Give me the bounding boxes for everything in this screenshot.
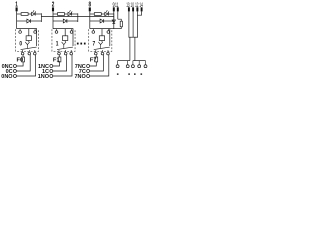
wire 10 down bbox=[132, 11, 134, 37]
terminal 14 pin mark bbox=[141, 7, 143, 11]
terminal 11 pin mark bbox=[117, 7, 119, 11]
contact point b bbox=[34, 31, 37, 34]
wire 14 jog bbox=[137, 11, 141, 15]
contact point a bbox=[92, 31, 95, 34]
wire 7NO bbox=[90, 55, 109, 76]
plug mark bbox=[128, 73, 130, 75]
relay box K7 bbox=[89, 29, 112, 51]
svg-text:7: 7 bbox=[93, 42, 96, 48]
socket bbox=[138, 65, 141, 68]
resistor R1 bbox=[58, 13, 65, 16]
terminal 1NO bbox=[50, 75, 53, 78]
socket bbox=[131, 65, 134, 68]
svg-text:1NO: 1NO bbox=[38, 74, 50, 80]
socket bbox=[126, 65, 129, 68]
contact stub a bbox=[56, 29, 58, 31]
bottom point 2 bbox=[34, 52, 37, 55]
wire LED to node bbox=[72, 13, 78, 15]
terminal 9 pin mark bbox=[113, 7, 115, 11]
fuse F1 bbox=[58, 57, 61, 62]
socket stub bbox=[132, 61, 134, 65]
diode D7b bbox=[100, 19, 104, 23]
wire 1NO bbox=[53, 55, 72, 76]
wire diode to node bbox=[31, 20, 42, 22]
bottom point 0 bbox=[95, 52, 98, 55]
contact stub b bbox=[71, 29, 73, 31]
svg-text:0: 0 bbox=[19, 42, 22, 48]
actuator stem bbox=[26, 45, 28, 49]
bottom stub 2 bbox=[34, 50, 36, 52]
wire input 1 vertical bbox=[16, 11, 18, 28]
wire bus coil return bbox=[110, 28, 122, 30]
wire 0NC bbox=[16, 62, 23, 66]
wire socket bus right bbox=[133, 60, 146, 62]
relay coil K7 bbox=[99, 36, 104, 41]
terminal 2 pin mark bbox=[52, 7, 54, 11]
bottom stub 2 bbox=[107, 50, 109, 52]
terminal 10 pin mark bbox=[132, 7, 134, 11]
socket stub bbox=[127, 61, 129, 65]
terminal 7C bbox=[87, 70, 90, 73]
terminal 7NO bbox=[87, 75, 90, 78]
ellipsis bbox=[77, 43, 86, 45]
socket stub bbox=[138, 61, 140, 65]
relay box K1 bbox=[52, 29, 75, 51]
contact point b bbox=[70, 31, 73, 34]
bottom stub 1 bbox=[102, 50, 104, 52]
actuator V bbox=[98, 42, 102, 45]
diode D1b bbox=[63, 19, 67, 23]
socket stub bbox=[145, 61, 147, 65]
wire coil feed bbox=[53, 29, 73, 46]
wire to resistor bbox=[90, 13, 95, 15]
terminal 1 pin mark bbox=[16, 7, 18, 11]
wire coil feed bbox=[90, 29, 110, 46]
relay box K0 bbox=[16, 29, 39, 51]
bottom stub 0 bbox=[58, 50, 60, 52]
svg-text:F7: F7 bbox=[90, 58, 97, 64]
plug mark bbox=[134, 73, 136, 75]
wire com bus bbox=[129, 36, 139, 38]
terminal 12 pin mark bbox=[136, 7, 138, 11]
wire input 8 vertical bbox=[89, 11, 91, 28]
contact stub a bbox=[19, 29, 21, 31]
LED arrows bbox=[106, 10, 109, 13]
bottom stub 0 bbox=[22, 50, 24, 52]
wire 0C bbox=[16, 55, 30, 71]
wire 7C bbox=[90, 55, 104, 71]
LED arrows bbox=[33, 10, 36, 13]
wire fuse top bbox=[95, 55, 97, 57]
socket bbox=[116, 65, 119, 68]
plug mark bbox=[117, 73, 119, 75]
wire 1NC bbox=[53, 62, 60, 66]
terminal 13 pin mark bbox=[128, 7, 130, 11]
resistor R7 bbox=[94, 13, 101, 16]
bottom stub 2 bbox=[70, 50, 72, 52]
wire fuse top bbox=[59, 55, 61, 57]
diode D0b bbox=[27, 19, 31, 23]
relay coil K1 bbox=[63, 36, 68, 41]
LED D0a bbox=[32, 12, 36, 15]
wire diode to node bbox=[104, 20, 114, 22]
terminal 0NC bbox=[13, 65, 16, 68]
wire 9 down bbox=[113, 11, 115, 20]
diode D9 bbox=[112, 20, 115, 24]
fuse F7 bbox=[95, 57, 98, 62]
wire resistor to LED bbox=[28, 13, 32, 15]
contact point b bbox=[107, 31, 110, 34]
node vertical bbox=[40, 13, 42, 22]
wire coil top bbox=[64, 29, 66, 36]
node vertical bbox=[77, 13, 79, 22]
terminal 8 pin mark bbox=[89, 7, 91, 11]
wire 0NO bbox=[16, 55, 35, 76]
fuse F0 bbox=[22, 57, 25, 62]
wire coil bottom bbox=[101, 41, 103, 43]
LED D1a bbox=[68, 12, 72, 15]
contact stub b bbox=[107, 29, 109, 31]
wire 11 jog bbox=[118, 19, 122, 21]
bottom point 2 bbox=[70, 52, 73, 55]
actuator stem bbox=[63, 45, 65, 49]
terminal 0NO bbox=[13, 75, 16, 78]
svg-text:2: 2 bbox=[52, 0, 55, 9]
actuator V bbox=[25, 42, 29, 45]
terminal 0C bbox=[13, 70, 16, 73]
contact arm bbox=[57, 47, 73, 50]
wire input 2 vertical bbox=[52, 11, 54, 28]
wire LED to node bbox=[108, 13, 113, 15]
relay coil K0 bbox=[26, 36, 31, 41]
contact arm bbox=[21, 47, 37, 50]
wire coil top bbox=[28, 29, 30, 36]
resistor R0 bbox=[21, 13, 28, 16]
bottom stub 0 bbox=[95, 50, 97, 52]
wire 1C bbox=[53, 55, 67, 71]
wire socket bus left bbox=[118, 60, 130, 62]
bottom point 0 bbox=[58, 52, 61, 55]
bottom stub 1 bbox=[28, 50, 30, 52]
wire coil feed bbox=[17, 29, 37, 46]
bottom point 0 bbox=[21, 52, 24, 55]
socket stub bbox=[117, 61, 119, 65]
wire suppressor bottom bbox=[120, 27, 122, 29]
bottom stub 1 bbox=[65, 50, 67, 52]
wire to resistor bbox=[17, 13, 22, 15]
bottom point 1 bbox=[64, 52, 67, 55]
wire LED to node bbox=[35, 13, 41, 15]
wire bus coil supply bbox=[41, 16, 113, 18]
wire to diode bbox=[90, 20, 100, 22]
contact point a bbox=[19, 31, 22, 34]
contact arm bbox=[94, 47, 110, 50]
wire com B bbox=[134, 37, 136, 60]
svg-text:8: 8 bbox=[89, 0, 92, 9]
wire coil top bbox=[101, 29, 103, 36]
wire resistor to LED bbox=[65, 13, 69, 15]
svg-text:1: 1 bbox=[56, 42, 59, 48]
svg-text:0NO: 0NO bbox=[1, 74, 13, 80]
contact stub a bbox=[92, 29, 94, 31]
LED arrows bbox=[69, 10, 72, 13]
actuator V bbox=[62, 42, 66, 45]
bottom point 1 bbox=[28, 52, 31, 55]
plug mark bbox=[141, 73, 143, 75]
wire coil bottom bbox=[64, 41, 66, 43]
bottom point 1 bbox=[101, 52, 104, 55]
wire fuse top bbox=[22, 55, 24, 57]
wire com A bbox=[129, 37, 131, 60]
wire resistor to LED bbox=[101, 13, 105, 15]
contact stub b bbox=[34, 29, 36, 31]
wire to diode bbox=[17, 20, 27, 22]
LED D7a bbox=[105, 12, 109, 15]
wire to resistor bbox=[53, 13, 58, 15]
terminal 1NC bbox=[50, 65, 53, 68]
contact point a bbox=[55, 31, 58, 34]
wire 7NC bbox=[90, 62, 97, 66]
terminal 7NC bbox=[87, 65, 90, 68]
wire 13 down bbox=[128, 11, 130, 37]
wire 11 down bbox=[117, 11, 119, 19]
wire coil bottom bbox=[28, 41, 30, 43]
socket bbox=[144, 65, 147, 68]
svg-text:F0: F0 bbox=[17, 58, 24, 64]
suppressor Z1 bbox=[120, 21, 122, 27]
svg-text:7NO: 7NO bbox=[74, 74, 86, 80]
node vertical bbox=[113, 13, 115, 22]
actuator stem bbox=[100, 45, 102, 49]
wire 12 down bbox=[136, 11, 138, 37]
terminal 1C bbox=[50, 70, 53, 73]
wire to diode bbox=[53, 20, 63, 22]
svg-text:1: 1 bbox=[15, 0, 18, 9]
wire diode to node bbox=[67, 20, 78, 22]
bottom point 2 bbox=[107, 52, 110, 55]
wire 9 down2 bbox=[113, 24, 115, 30]
